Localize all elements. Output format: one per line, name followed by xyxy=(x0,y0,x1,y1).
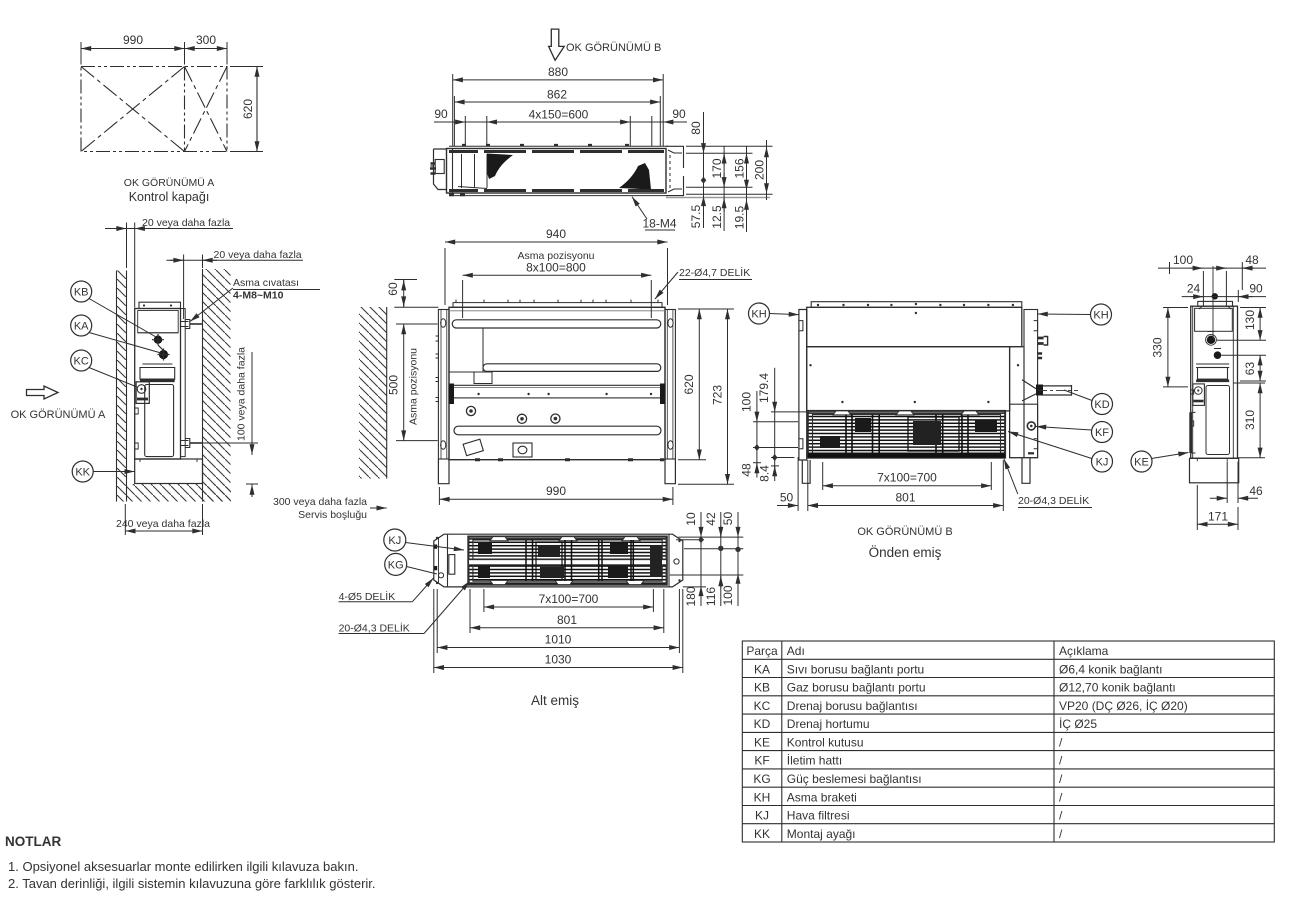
svg-text:Asma braketi: Asma braketi xyxy=(787,790,857,804)
svg-text:İÇ Ø25: İÇ Ø25 xyxy=(1059,717,1097,731)
right dims 10/42/50 and 180/116/100 xyxy=(670,512,744,606)
upper band xyxy=(807,307,1022,346)
arrow for 600 right end xyxy=(618,121,630,123)
svg-text:100: 100 xyxy=(739,392,753,412)
node dot 42 xyxy=(718,546,723,551)
grille vertical dividers (bottom view) xyxy=(526,540,633,581)
svg-text:990: 990 xyxy=(546,484,566,498)
svg-text:KG: KG xyxy=(388,559,404,571)
dim 100 veya daha fazla xyxy=(190,352,258,497)
svg-text:Önden emiş: Önden emiş xyxy=(869,545,942,560)
grille frame (bottom view) xyxy=(468,537,666,585)
floor face line xyxy=(135,483,203,485)
svg-text:KE: KE xyxy=(1134,457,1149,469)
screw dots on top plate xyxy=(818,304,1013,305)
parts table xyxy=(742,641,1274,842)
grille bottom thick band xyxy=(808,453,1005,458)
mid rail end blocks xyxy=(449,384,454,405)
KF transmission hole xyxy=(1027,422,1035,430)
svg-text:12.5: 12.5 xyxy=(710,205,724,229)
view F: right side view xyxy=(1190,266,1239,483)
dim line 862 xyxy=(454,101,660,103)
dim 8x100=800 xyxy=(463,275,652,318)
small bracket box xyxy=(474,372,492,384)
svg-text:7x100=700: 7x100=700 xyxy=(539,592,599,606)
floor hatch below unit xyxy=(127,484,231,502)
dim 63 xyxy=(1222,355,1267,381)
arrows for 90 left xyxy=(452,121,465,123)
node diamond 48 xyxy=(754,444,760,451)
label circle KJ xyxy=(1008,432,1113,473)
inner vertical divider xyxy=(482,328,484,372)
unit main body xyxy=(135,309,181,460)
hanging bolt line xyxy=(1202,271,1204,306)
svg-text:KD: KD xyxy=(754,717,771,731)
dim 500 xyxy=(396,324,438,441)
dim 330 xyxy=(1163,308,1188,387)
svg-text:KH: KH xyxy=(751,309,766,321)
top view unit body xyxy=(430,145,770,198)
wall face line (front view) xyxy=(386,307,388,479)
inner left line xyxy=(1192,306,1194,458)
svg-text:620: 620 xyxy=(682,374,696,394)
grille vertical dividers xyxy=(846,415,968,455)
svg-text:130: 130 xyxy=(1243,310,1257,330)
unit outer body xyxy=(449,307,665,459)
view A: control cover (OK GÖRÜNÜMÜ A) xyxy=(81,42,263,152)
arrow symbol OK GÖRÜNÜMÜ B xyxy=(549,29,565,60)
svg-text:KA: KA xyxy=(74,321,89,333)
svg-text:KF: KF xyxy=(1095,427,1109,439)
dim 100 (left) xyxy=(753,391,798,422)
left column connector marks xyxy=(436,336,439,402)
svg-text:KF: KF xyxy=(754,754,769,768)
body main rect xyxy=(447,149,667,194)
svg-text:Ø12,70 konik bağlantı: Ø12,70 konik bağlantı xyxy=(1059,681,1176,695)
body outer thin lines xyxy=(449,145,668,147)
node diamond 8.4 xyxy=(772,454,778,461)
svg-text:156: 156 xyxy=(733,158,747,178)
dim line 880 xyxy=(453,79,664,81)
dim 171 xyxy=(1197,485,1238,530)
knockout hole mid xyxy=(517,414,526,423)
svg-text:990: 990 xyxy=(123,33,143,47)
tilted nameplate xyxy=(463,439,483,456)
hanger bracket bottom xyxy=(181,439,190,448)
lower compartment panel xyxy=(145,385,174,457)
svg-text:50: 50 xyxy=(721,512,735,526)
control cover diagonals left cell xyxy=(81,67,227,152)
ref line flange inner bottom xyxy=(686,186,753,188)
drain hose KD xyxy=(1022,380,1036,401)
svg-text:940: 940 xyxy=(546,227,566,241)
wall hatch (front view) xyxy=(359,307,387,479)
svg-text:OK GÖRÜNÜMÜ A: OK GÖRÜNÜMÜ A xyxy=(11,409,106,421)
view G: bottom view Alt emiş xyxy=(434,534,683,587)
svg-text:4-Ø5 DELİK: 4-Ø5 DELİK xyxy=(339,590,396,603)
drain pan xyxy=(140,364,175,379)
svg-text:620: 620 xyxy=(241,99,255,119)
mounting base KK xyxy=(135,459,203,484)
svg-text:46: 46 xyxy=(1249,484,1263,498)
clips (view F) xyxy=(1191,390,1194,426)
legs xyxy=(802,460,810,483)
label circle KK xyxy=(72,461,135,482)
dim 620 (front) xyxy=(678,309,734,460)
dim 862 extension lines xyxy=(453,96,455,146)
grille inner frame xyxy=(813,415,1001,455)
bottom edge clips xyxy=(475,458,664,461)
dim 7x100=700 (bottom view) xyxy=(484,589,654,612)
svg-text:330: 330 xyxy=(1151,337,1165,357)
main body (view F) xyxy=(1191,306,1238,458)
left end corner marks xyxy=(434,545,437,571)
svg-text:48: 48 xyxy=(739,463,753,477)
label circle KD xyxy=(1064,390,1113,415)
svg-text:80: 80 xyxy=(689,121,703,135)
leader 22-Ø4,7 DELİK xyxy=(655,272,678,299)
svg-text:8x100=800: 8x100=800 xyxy=(526,261,586,275)
hole extension lines xyxy=(464,116,466,146)
svg-text:Drenaj hortumu: Drenaj hortumu xyxy=(787,717,870,731)
svg-text:18-M4: 18-M4 xyxy=(642,217,676,231)
gas valve KB xyxy=(154,336,162,344)
svg-text:116: 116 xyxy=(704,587,718,606)
leader 20-Ø4,3 DELİK (view E) xyxy=(1004,459,1018,494)
dim 940 xyxy=(445,242,668,305)
grille bottom notches xyxy=(490,580,644,584)
svg-text:VP20 (DÇ Ø26, İÇ Ø20): VP20 (DÇ Ø26, İÇ Ø20) xyxy=(1059,699,1188,713)
corner screws xyxy=(437,538,680,583)
svg-text:KC: KC xyxy=(74,356,89,368)
right panel box below xyxy=(1010,404,1038,458)
svg-text:240 veya daha fazla: 240 veya daha fazla xyxy=(116,518,210,530)
svg-text:1010: 1010 xyxy=(545,633,572,647)
table rows xyxy=(753,662,1187,841)
18-M4 screws at bottom xyxy=(449,193,465,196)
right wall face line xyxy=(202,269,204,502)
black wedge bottom-right xyxy=(619,163,651,190)
svg-text:OK GÖRÜNÜMÜ B: OK GÖRÜNÜMÜ B xyxy=(857,526,952,538)
svg-text:500: 500 xyxy=(387,375,401,395)
svg-text:24: 24 xyxy=(1187,282,1201,296)
arrow for 90 right xyxy=(663,121,676,123)
top hat rail xyxy=(453,303,662,308)
svg-text:KJ: KJ xyxy=(755,809,769,823)
right hanger rail xyxy=(181,309,186,457)
svg-text:48: 48 xyxy=(1245,253,1259,267)
svg-text:Sıvı borusu bağlantı portu: Sıvı borusu bağlantı portu xyxy=(787,662,924,676)
left wall strip edges xyxy=(117,271,127,502)
drain pan (view F) xyxy=(1196,364,1229,368)
svg-text:Güç beslemesi bağlantısı: Güç beslemesi bağlantısı xyxy=(787,772,922,786)
svg-text:90: 90 xyxy=(434,107,448,121)
svg-text:300: 300 xyxy=(196,33,216,47)
arrow symbol OK GÖRÜNÜMÜ A xyxy=(27,386,59,399)
svg-text:200: 200 xyxy=(753,160,767,180)
main face xyxy=(807,347,1010,411)
ref line flange bottom xyxy=(686,193,773,195)
dim line 300 xyxy=(185,48,228,50)
svg-text:8.4: 8.4 xyxy=(757,465,771,482)
thick segmented front band top xyxy=(449,150,664,153)
body outline with chamfered ends xyxy=(434,534,683,587)
svg-text:20 veya daha fazla: 20 veya daha fazla xyxy=(214,249,302,261)
svg-text:KG: KG xyxy=(753,772,770,786)
svg-text:KC: KC xyxy=(754,699,771,713)
knockout hole left xyxy=(466,406,475,415)
control box KE thick edge xyxy=(1189,412,1192,453)
svg-text:Asma pozisyonu: Asma pozisyonu xyxy=(408,348,420,425)
svg-text:KE: KE xyxy=(754,735,770,749)
power connector KG xyxy=(449,555,455,575)
svg-text:90: 90 xyxy=(672,107,686,121)
label circle KC xyxy=(71,350,137,387)
svg-text:179.4: 179.4 xyxy=(757,373,771,403)
air filter grille frame xyxy=(808,411,1005,458)
dim line 170/12.5 xyxy=(723,146,725,231)
ref line hole level xyxy=(686,152,753,154)
hanger bracket top xyxy=(181,320,190,329)
svg-text:170: 170 xyxy=(710,158,724,178)
right corner column xyxy=(665,310,675,460)
column bolt slots xyxy=(441,319,446,327)
grille top notches (bottom view) xyxy=(490,537,640,541)
svg-text:KK: KK xyxy=(754,827,770,841)
top slot bar xyxy=(452,320,661,328)
svg-text:2. Tavan derinliği, ilgili sis: 2. Tavan derinliği, ilgili sistemin kıla… xyxy=(8,876,376,891)
table column headers xyxy=(746,644,1108,658)
svg-text:4x150=600: 4x150=600 xyxy=(529,108,589,122)
svg-text:310: 310 xyxy=(1243,410,1257,430)
svg-text:Gaz borusu bağlantı portu: Gaz borusu bağlantı portu xyxy=(787,681,926,695)
dim 990/300 extension lines xyxy=(81,42,227,65)
leader 4-Ø5 DELİK xyxy=(412,578,433,602)
ref line flange top xyxy=(686,145,773,147)
svg-text:19.5: 19.5 xyxy=(733,205,747,229)
right end panel xyxy=(1010,347,1024,458)
face dots xyxy=(811,313,1019,402)
screw dots on top edge xyxy=(462,144,629,146)
left end box xyxy=(447,534,449,587)
svg-text:KH: KH xyxy=(754,790,771,804)
svg-text:10: 10 xyxy=(684,512,698,526)
dim 20 veya daha fazla (top) xyxy=(105,223,233,308)
bolt head dot xyxy=(1212,293,1218,299)
label circle KH left xyxy=(749,303,799,324)
svg-text:63: 63 xyxy=(1243,362,1257,376)
svg-text:1. Opsiyonel aksesuarlar monte: 1. Opsiyonel aksesuarlar monte edilirken… xyxy=(8,859,358,874)
dim 60 xyxy=(394,280,438,308)
top hat (view F) xyxy=(1198,301,1233,306)
gas pipe dot xyxy=(1207,336,1215,344)
left wall strip hatch xyxy=(117,271,127,502)
svg-text:Adı: Adı xyxy=(787,644,805,658)
upper compartment (view F) xyxy=(1195,308,1233,331)
control cover outline (dash-dot) xyxy=(81,67,227,152)
svg-text:42: 42 xyxy=(704,512,718,526)
svg-text:KB: KB xyxy=(74,287,89,299)
middle slot bar xyxy=(483,364,661,372)
dim 240 veya daha fazla xyxy=(125,504,202,535)
left hanger bracket column xyxy=(799,310,807,461)
upper compartment line xyxy=(138,332,179,334)
left connector box xyxy=(431,149,447,190)
small clips on left edge xyxy=(135,408,139,449)
bottom center box with hole xyxy=(513,443,532,457)
svg-text:Hava filtresi: Hava filtresi xyxy=(787,809,850,823)
left corner column xyxy=(438,310,449,460)
svg-text:Asma cıvatası: Asma cıvatası xyxy=(233,277,299,289)
pump box (view F) xyxy=(1193,384,1205,406)
svg-text:180: 180 xyxy=(684,586,698,606)
rivet dots on mid rail xyxy=(479,393,651,395)
svg-text:KB: KB xyxy=(754,681,770,695)
label circle KB xyxy=(71,281,156,337)
svg-text:20-Ø4,3 DELİK: 20-Ø4,3 DELİK xyxy=(339,622,410,635)
svg-text:Kontrol kapağı: Kontrol kapağı xyxy=(129,190,210,204)
leader asma cıvatası xyxy=(190,288,233,322)
right flange xyxy=(666,146,684,195)
right rail (view F) xyxy=(1233,306,1237,458)
leader 20-Ø4,3 DELİK (bottom view) xyxy=(424,581,470,634)
svg-text:KH: KH xyxy=(1093,310,1108,322)
svg-text:57.5: 57.5 xyxy=(689,204,703,228)
inner partition lines xyxy=(452,149,454,194)
svg-text:KJ: KJ xyxy=(1096,457,1109,469)
grey rails extending right below xyxy=(666,197,770,199)
svg-text:Servis boşluğu: Servis boşluğu xyxy=(298,509,367,521)
node dot 50 xyxy=(735,547,740,552)
svg-text:KD: KD xyxy=(1094,399,1109,411)
liquid pipe dot xyxy=(1214,351,1222,359)
svg-text:Alt emiş: Alt emiş xyxy=(531,693,579,708)
label circle KA xyxy=(71,315,161,353)
svg-text:20-Ø4,3 DELİK: 20-Ø4,3 DELİK xyxy=(1018,494,1089,507)
svg-text:OK GÖRÜNÜMÜ B: OK GÖRÜNÜMÜ B xyxy=(566,42,661,54)
base (view F) xyxy=(1190,458,1239,483)
svg-text:22-Ø4,7 DELİK: 22-Ø4,7 DELİK xyxy=(679,266,750,279)
dim line 620 xyxy=(256,67,258,152)
right side dims of top view xyxy=(686,112,773,232)
dim line 990 xyxy=(81,48,185,50)
dim 880 extension lines xyxy=(452,74,454,146)
svg-text:50: 50 xyxy=(780,491,794,505)
control cover diagonals right cell xyxy=(185,67,228,152)
dim 620 extension lines xyxy=(230,66,263,68)
dim 46 xyxy=(1210,462,1258,504)
dim 723 xyxy=(678,309,734,484)
svg-text:7x100=700: 7x100=700 xyxy=(877,471,937,485)
grille top notches xyxy=(833,411,979,415)
svg-text:İletim hattı: İletim hattı xyxy=(787,754,842,768)
dim 1030 xyxy=(434,589,683,673)
dim line 200 xyxy=(766,140,768,200)
unit top hat xyxy=(139,302,181,308)
dim line 90 / 4x150=600 / 90 xyxy=(434,121,687,123)
knockout hole right xyxy=(551,414,560,423)
label circle KF xyxy=(1036,422,1113,443)
hanging bolt rod (right) xyxy=(183,303,185,319)
svg-text:NOTLAR: NOTLAR xyxy=(5,834,61,849)
svg-text:100: 100 xyxy=(721,585,735,605)
svg-text:Montaj ayağı: Montaj ayağı xyxy=(787,827,856,841)
connector valves (flare nuts) xyxy=(430,164,436,174)
drain pump KC xyxy=(136,382,149,404)
svg-text:100 veya daha fazla: 100 veya daha fazla xyxy=(236,347,248,441)
svg-text:KK: KK xyxy=(75,467,90,479)
svg-text:801: 801 xyxy=(895,491,915,505)
mid rail band xyxy=(449,385,665,398)
left shelf line xyxy=(449,371,483,373)
svg-text:171: 171 xyxy=(1208,509,1228,523)
label circle KG (bottom view) xyxy=(385,553,437,575)
dim 20 veya daha fazla (second) xyxy=(166,255,303,304)
power connector hole xyxy=(438,573,443,578)
small mark below KF xyxy=(1028,452,1034,454)
svg-text:4-M8~M10: 4-M8~M10 xyxy=(233,290,284,302)
dim line 156/19.5 xyxy=(746,146,748,232)
dim 7x100=700 (view E) xyxy=(823,462,992,490)
top plate xyxy=(811,302,1022,308)
svg-text:300 veya daha fazla: 300 veya daha fazla xyxy=(273,496,367,508)
label circle KJ (bottom view) xyxy=(384,529,464,551)
liquid valve KA xyxy=(159,350,168,359)
bottom slot bar xyxy=(454,426,661,435)
black wedge top-left xyxy=(487,154,513,180)
svg-text:90: 90 xyxy=(1249,282,1263,296)
dim 50/801 line xyxy=(777,457,1003,511)
dim 801 (bottom view) xyxy=(470,589,664,633)
dim line 24/90 xyxy=(1182,290,1266,302)
dim line 100/48 (view F) xyxy=(1158,262,1266,290)
dim 130 xyxy=(1217,308,1266,341)
node diamond 10 xyxy=(698,536,704,543)
svg-text:100: 100 xyxy=(1173,253,1193,267)
right leg xyxy=(665,459,675,484)
label circle KH right xyxy=(1038,304,1112,325)
dim 179.4 xyxy=(771,368,808,412)
svg-text:1030: 1030 xyxy=(545,653,572,667)
lower panel (view F) xyxy=(1206,386,1230,455)
svg-text:KA: KA xyxy=(754,662,770,676)
leader 18-M4 xyxy=(632,197,647,219)
svg-text:880: 880 xyxy=(548,65,568,79)
diamond node xyxy=(701,177,707,184)
svg-text:723: 723 xyxy=(710,385,724,405)
svg-text:Ø6,4 konik bağlantı: Ø6,4 konik bağlantı xyxy=(1059,662,1162,676)
arrow to wall for 300 xyxy=(370,507,387,509)
left leg xyxy=(438,459,449,484)
right wall hatch xyxy=(203,269,231,502)
svg-text:KJ: KJ xyxy=(388,535,401,547)
svg-text:Kontrol kutusu: Kontrol kutusu xyxy=(787,735,864,749)
dim 990 (front bottom) xyxy=(439,487,673,505)
dim line 80/170/57.5 xyxy=(703,112,705,228)
svg-text:OK GÖRÜNÜMÜ A: OK GÖRÜNÜMÜ A xyxy=(124,177,214,189)
svg-text:Parça: Parça xyxy=(746,644,778,658)
grille mid rail xyxy=(468,560,666,565)
dim 1010 xyxy=(437,589,679,653)
grille dark patches xyxy=(855,418,871,432)
svg-text:Açıklama: Açıklama xyxy=(1059,644,1109,658)
svg-text:801: 801 xyxy=(557,613,577,627)
thick segmented front band bottom xyxy=(449,189,664,192)
dim 310 xyxy=(1233,383,1265,458)
view E: OK GÖRÜNÜMÜ B front suction view xyxy=(799,302,1078,484)
pipe connector stubs right xyxy=(1038,338,1044,344)
svg-text:862: 862 xyxy=(547,88,567,102)
